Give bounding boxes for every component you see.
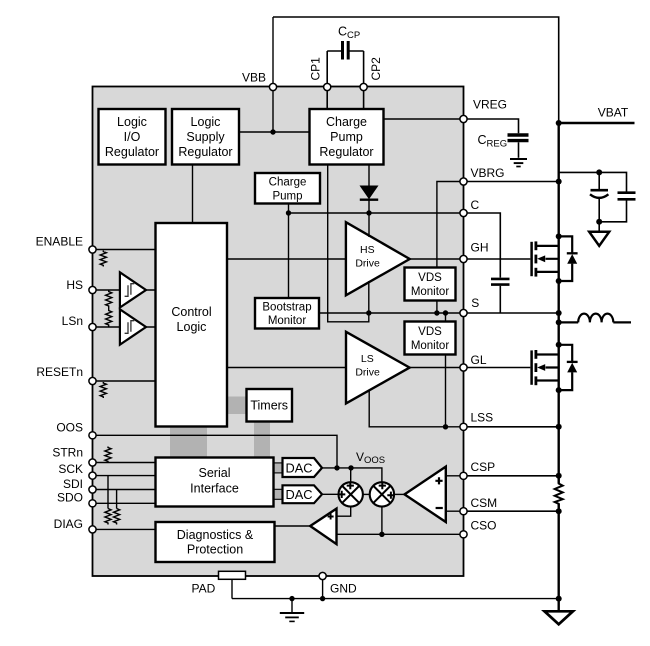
junction VBRG rail	[556, 179, 562, 185]
wire node S internal	[319, 312, 464, 314]
svg-text:GH: GH	[471, 241, 489, 255]
ground bulk capacitors	[589, 232, 609, 246]
wire C to bootstrap capacitor	[464, 213, 501, 278]
pin SDI	[89, 486, 96, 493]
wire ENABLE	[93, 249, 156, 251]
label GL	[471, 353, 487, 367]
svg-text:CSP: CSP	[471, 460, 496, 474]
block Bootstrap Monitor	[255, 298, 319, 329]
svg-text:VDS: VDS	[418, 326, 442, 338]
pin VREG	[460, 115, 467, 122]
capacitor bulk ceramic	[599, 193, 635, 232]
schmitt buffer LSn	[120, 309, 146, 344]
svg-text:Charge: Charge	[326, 115, 367, 129]
wire DIAG	[93, 528, 156, 530]
wire diag op-amp to diagnostics block	[275, 525, 311, 527]
wire DAC1 to VOOS node	[322, 468, 382, 483]
bus timers to serial-interface	[254, 421, 270, 459]
pin VBB	[269, 83, 276, 90]
capacitor CREG	[508, 135, 529, 158]
pin GH	[460, 255, 467, 262]
svg-text:RESETn: RESETn	[36, 365, 83, 379]
block Charge Pump	[255, 173, 320, 204]
junction bulk cap top	[596, 169, 602, 175]
resistor pull RESETn	[100, 382, 106, 398]
svg-text:DIAG: DIAG	[54, 517, 83, 531]
svg-text:STRn: STRn	[52, 446, 83, 460]
label VBAT	[598, 106, 629, 120]
wire X1 to diag op-amp	[337, 506, 351, 516]
svg-text:CSM: CSM	[471, 496, 498, 510]
wire HS drive to GH	[410, 258, 464, 260]
bus control-logic to serial-interface	[170, 426, 207, 459]
block Logic I/O Regulator	[99, 109, 166, 165]
wire CP2 pin	[363, 51, 365, 109]
diode body Q2	[559, 345, 578, 390]
wire VBB to VBAT rail (top)	[273, 17, 559, 123]
svg-text:Charge: Charge	[269, 177, 307, 189]
svg-text:Bootstrap: Bootstrap	[262, 302, 311, 314]
pin SDO	[89, 500, 96, 507]
ground signal tap	[280, 599, 304, 622]
svg-text:VBAT: VBAT	[598, 106, 629, 120]
bus control-logic to timers	[226, 397, 247, 415]
pin S	[460, 309, 467, 316]
wire LS drive to GL	[410, 367, 464, 369]
label PAD	[192, 582, 216, 596]
DAC 2	[283, 485, 323, 503]
pin HS	[89, 286, 96, 293]
svg-text:GL: GL	[471, 353, 487, 367]
svg-text:CP1: CP1	[309, 57, 323, 81]
junction Q2 source	[556, 387, 562, 393]
capacitor bootstrap	[491, 279, 510, 313]
svg-text:Control: Control	[171, 305, 211, 319]
junction VDS1 on S	[434, 310, 439, 315]
junction VDS2 on LSS	[443, 424, 448, 429]
wire VREG to CREG	[464, 119, 519, 133]
junction charge-pump on C	[286, 210, 291, 215]
svg-text:Logic: Logic	[177, 320, 207, 334]
wire logic-supply-regulator to control-logic	[192, 165, 194, 224]
svg-text:S: S	[471, 296, 479, 310]
svg-text:Drive: Drive	[355, 258, 380, 270]
label VREG	[473, 98, 507, 112]
wire node C to HS drive top	[368, 213, 370, 237]
svg-text:LSn: LSn	[62, 314, 83, 328]
svg-text:SDI: SDI	[63, 477, 83, 491]
svg-text:VBB: VBB	[242, 71, 266, 85]
label LSn	[62, 314, 83, 328]
wire charge-pump-regulator to S node	[328, 165, 369, 322]
svg-text:Pump: Pump	[272, 191, 302, 203]
svg-text:PAD: PAD	[192, 582, 216, 596]
wire X2 to op-amp	[394, 493, 406, 495]
wire VBRG to VDS monitor	[437, 182, 464, 268]
svg-text:VREG: VREG	[473, 98, 507, 112]
junction X2 on CSO	[379, 532, 384, 537]
wire CP1 pin	[326, 51, 328, 109]
label SDI	[63, 477, 83, 491]
pin VBRG	[460, 178, 467, 185]
capacitor CCP	[327, 41, 363, 60]
op-amp to diagnostics	[310, 509, 336, 544]
junction Q2 drain	[556, 342, 562, 348]
svg-text:Drive: Drive	[355, 367, 380, 379]
label CSO	[471, 518, 497, 532]
pin OOS	[89, 432, 96, 439]
junction S rail	[556, 310, 562, 316]
pin CSO	[460, 531, 467, 538]
wire SDI	[93, 489, 156, 491]
svg-text:Serial: Serial	[199, 466, 231, 480]
pin ENABLE	[89, 246, 96, 253]
junction VBB node	[270, 129, 275, 134]
amplifier HS Drive	[346, 222, 410, 295]
label LSS	[471, 410, 494, 424]
svg-text:GND: GND	[330, 582, 357, 596]
wire op-amp CSP input	[446, 475, 464, 477]
wire S line to VDS monitor low	[445, 313, 447, 322]
pin GND	[319, 572, 326, 579]
wire OOS	[93, 435, 338, 468]
wire VBAT rail vertical	[558, 123, 560, 611]
pin DIAG	[89, 526, 96, 533]
wire RESETn	[93, 380, 156, 382]
junction VDS2 on S	[443, 310, 448, 315]
block Serial Interface	[156, 458, 274, 507]
junction CSM rail	[556, 508, 562, 514]
wire GND pin down	[322, 580, 324, 599]
pad PAD	[219, 571, 246, 598]
wire STRn	[93, 462, 156, 464]
wire LS drive to LSS	[369, 390, 463, 426]
label ENABLE	[36, 235, 83, 249]
label CP2	[369, 57, 383, 81]
label VOOS	[356, 450, 385, 466]
diode body Q1	[559, 236, 578, 281]
DAC 1	[283, 458, 323, 477]
svg-text:VDS: VDS	[418, 272, 442, 284]
wire LSn to buffer	[93, 326, 156, 328]
label GH	[471, 241, 489, 255]
junction bulk cap bottom	[596, 219, 602, 225]
wire VDS monitor low to LSS	[445, 355, 447, 427]
label CCP	[338, 25, 360, 42]
block Control Logic	[156, 223, 228, 427]
pin STRn	[89, 459, 96, 466]
capacitor bulk electrolytic	[590, 190, 608, 222]
pin CSP	[460, 472, 467, 479]
wire LSS to rail	[464, 426, 559, 428]
label CSM	[471, 496, 498, 510]
svg-text:DAC: DAC	[285, 460, 312, 475]
svg-text:OOS: OOS	[56, 421, 83, 435]
pin CP2	[360, 83, 367, 90]
svg-text:HS: HS	[66, 278, 83, 292]
pin RESETn	[89, 377, 96, 384]
wire GH to FET gate	[464, 258, 531, 260]
pin C	[460, 209, 467, 216]
wire node C horizontal	[289, 212, 464, 214]
svg-text:Logic: Logic	[117, 115, 147, 129]
label GND	[330, 582, 357, 596]
wire SDO	[93, 502, 156, 504]
amplifier LS Drive	[346, 332, 410, 404]
svg-text:LS: LS	[361, 353, 374, 365]
schmitt buffer HS	[120, 272, 146, 307]
wire VREG internal	[384, 118, 464, 120]
summing junction X2	[370, 482, 395, 507]
label HS	[66, 278, 83, 292]
bus serial-interface to DAC2	[273, 489, 284, 499]
pin CSM	[460, 508, 467, 515]
svg-text:Diagnostics &: Diagnostics &	[177, 528, 254, 542]
wire CSM to rail	[464, 510, 559, 512]
junction X1 on VOOS	[348, 465, 353, 470]
wire control-logic to HS drive	[227, 258, 346, 260]
block Charge Pump Regulator	[310, 109, 384, 165]
diode charge-pump to C	[360, 165, 379, 214]
wire control-logic to LS drive	[227, 367, 346, 369]
junction Q1 source	[556, 278, 562, 284]
label STRn	[52, 446, 83, 460]
svg-text:Monitor: Monitor	[268, 315, 307, 327]
block Diagnostics and Protection	[156, 522, 275, 562]
wire GL to FET gate	[464, 367, 531, 369]
junction signal ground tap	[289, 596, 294, 601]
wire CSO	[337, 533, 464, 535]
wire VBRG to rail	[464, 181, 559, 183]
label SDO	[57, 491, 83, 505]
svg-text:HS: HS	[360, 244, 375, 256]
wire CSP to rail	[464, 475, 559, 477]
svg-text:SCK: SCK	[58, 462, 83, 476]
junction HS-drive on S	[366, 310, 371, 315]
junction LSS rail	[556, 424, 562, 430]
wire DAC2 to X1	[322, 493, 339, 495]
label C	[471, 198, 480, 212]
junction diode on C	[366, 210, 371, 215]
svg-text:VBRG: VBRG	[471, 166, 505, 180]
label CSP	[471, 460, 496, 474]
wire logic-supply-regulator to charge-pump-regulator	[239, 131, 310, 133]
svg-text:CP2: CP2	[369, 57, 383, 81]
svg-text:CSO: CSO	[471, 518, 497, 532]
label VBB	[242, 71, 266, 85]
pin GL	[460, 364, 467, 371]
svg-text:Protection: Protection	[187, 543, 243, 557]
label DIAG	[54, 517, 83, 531]
label VBRG	[471, 166, 505, 180]
bus serial-interface to DAC1	[273, 463, 284, 473]
IC body U1	[93, 87, 464, 577]
resistor pull SDI	[114, 490, 120, 525]
wire op-amp CSM input	[446, 510, 464, 512]
junction CSP rail	[556, 473, 562, 479]
wire charge-pump to node C and bootstrap monitor	[288, 204, 290, 299]
svg-text:Regulator: Regulator	[105, 145, 159, 159]
svg-text:Regulator: Regulator	[178, 145, 232, 159]
svg-text:ENABLE: ENABLE	[36, 235, 83, 249]
label SCK	[58, 462, 83, 476]
pin CP1	[324, 83, 331, 90]
wire S to rail	[464, 312, 559, 314]
svg-text:Timers: Timers	[250, 399, 288, 413]
label RESETn	[36, 365, 83, 379]
block VDS Monitor (high side)	[405, 268, 456, 301]
wire X2 to CSO line	[381, 506, 383, 534]
svg-text:LSS: LSS	[471, 410, 494, 424]
svg-text:C: C	[471, 198, 480, 212]
svg-text:Monitor: Monitor	[411, 286, 450, 298]
svg-text:I/O: I/O	[124, 130, 141, 144]
junction GND pin	[320, 596, 325, 601]
transistor Q2 low-side MOSFET	[532, 350, 559, 385]
label CP1	[309, 57, 323, 81]
op-amp current sense (CSP/CSM)	[405, 467, 446, 522]
svg-text:Pump: Pump	[330, 130, 363, 144]
resistor divider HS-LSn	[106, 290, 112, 327]
label S	[471, 296, 479, 310]
resistor pull STRn	[105, 447, 111, 463]
block Timers	[247, 389, 293, 422]
junction GND rail corner	[556, 596, 562, 602]
wire HS to buffer	[93, 289, 156, 291]
wire ground bus bottom	[232, 598, 559, 600]
wire rail to bulk capacitors	[559, 172, 627, 192]
wire SCK	[93, 475, 156, 477]
svg-text:DAC: DAC	[285, 487, 312, 502]
resistor sense RS	[555, 476, 563, 511]
wire VBB vertical into IC	[272, 17, 274, 132]
label CREG	[478, 133, 508, 150]
summing junction X1	[338, 482, 363, 507]
transistor Q1 high-side MOSFET	[532, 241, 559, 276]
block VDS Monitor (low side)	[405, 322, 456, 355]
svg-text:Interface: Interface	[190, 482, 239, 496]
wire VBAT	[559, 122, 635, 124]
svg-text:Supply: Supply	[186, 130, 225, 144]
wire VOOS to X1	[350, 468, 352, 483]
wire HS drive to S line	[368, 281, 370, 313]
svg-text:SDO: SDO	[57, 491, 83, 505]
svg-text:Regulator: Regulator	[319, 145, 373, 159]
label OOS	[56, 421, 83, 435]
wire X1 to X2	[363, 493, 371, 495]
resistor pull ENABLE	[100, 251, 106, 267]
pin SCK	[89, 472, 96, 479]
resistor pull SCK	[105, 476, 111, 525]
junction VBAT rail top	[556, 120, 562, 126]
junction inductor tap	[556, 319, 562, 325]
ground signal CREG	[510, 159, 527, 167]
inductor load	[559, 314, 631, 323]
junction Q1 drain	[556, 233, 562, 239]
wire VDS monitor to S line	[436, 301, 438, 314]
junction OOS on VOOS	[334, 465, 339, 470]
pin LSn	[89, 323, 96, 330]
svg-text:Monitor: Monitor	[411, 340, 450, 352]
block Logic Supply Regulator	[172, 109, 239, 165]
ground power main	[545, 611, 573, 624]
pin LSS	[460, 423, 467, 430]
svg-text:Logic: Logic	[191, 115, 221, 129]
